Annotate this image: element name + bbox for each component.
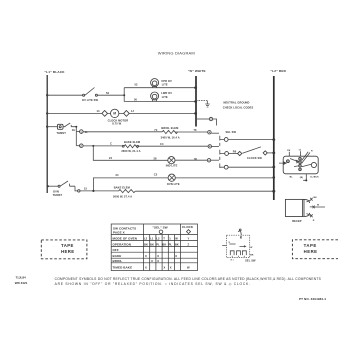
svg-text:L1: L1 (150, 237, 154, 241)
svg-text:BK: BK (314, 197, 318, 199)
svg-text:X: X (145, 265, 147, 269)
svg-text:OPERATION: OPERATION (113, 243, 132, 247)
svg-text:SEL SW: SEL SW (245, 259, 256, 263)
svg-text:2600 W, 21.4 A: 2600 W, 21.4 A (121, 149, 140, 153)
svg-text:(B): (B) (300, 177, 304, 179)
svg-text:C4: C4 (160, 142, 164, 146)
svg-text:X >: X > (231, 259, 235, 262)
svg-text:HERE: HERE (61, 249, 75, 254)
svg-text:30: 30 (194, 157, 198, 161)
svg-text:CLOCK SW: CLOCK SW (247, 156, 262, 160)
svg-text:BAKE ELEM: BAKE ELEM (124, 140, 140, 144)
svg-text:"N" WHITE: "N" WHITE (188, 69, 206, 73)
svg-text:NEUTRAL GROUND: NEUTRAL GROUND (224, 101, 250, 105)
svg-text:"L1" BLACK: "L1" BLACK (45, 70, 66, 74)
svg-text:M: M (113, 112, 116, 116)
svg-text:MODE OF OVEN: MODE OF OVEN (113, 237, 138, 241)
svg-text:LWR OV: LWR OV (161, 91, 172, 95)
svg-text:PT NO. 3294984-4: PT NO. 3294984-4 (299, 297, 326, 301)
svg-text:1H: 1H (72, 128, 76, 132)
svg-text:ARE SHOWN IN "OFF" OR "RELAXED: ARE SHOWN IN "OFF" OR "RELAXED" POSITION… (55, 282, 251, 286)
svg-text:L2: L2 (144, 237, 148, 241)
svg-text:IND LITE: IND LITE (166, 164, 178, 168)
svg-text:BK: BK (150, 243, 154, 247)
svg-text:LITE: LITE (162, 83, 168, 87)
svg-text:HERE: HERE (304, 249, 318, 254)
svg-text:74: 74 (154, 128, 158, 132)
svg-text:CHECK LOCAL CODES: CHECK LOCAL CODES (223, 105, 254, 109)
svg-text:THMST: THMST (57, 131, 67, 135)
svg-text:OFF: OFF (113, 248, 119, 252)
svg-text:X: X (151, 259, 153, 263)
svg-text:2600 W, 27.4 A: 2600 W, 27.4 A (113, 195, 132, 199)
svg-text:OVN: OVN (53, 189, 59, 193)
svg-text:COMPONENT SYMBOLS DO NOT REFLE: COMPONENT SYMBOLS DO NOT REFLECT TRUE CO… (55, 277, 322, 281)
svg-text:TAPE: TAPE (304, 243, 317, 248)
svg-text:BROIL: BROIL (113, 259, 123, 263)
svg-text:LITE: LITE (162, 95, 168, 99)
svg-text:53: 53 (106, 91, 110, 95)
svg-text:TAPE: TAPE (61, 243, 74, 248)
svg-text:THMST: THMST (53, 193, 63, 197)
svg-text:X: X (157, 259, 159, 263)
svg-text:1M: 1M (287, 150, 290, 152)
svg-text:BK: BK (144, 243, 148, 247)
svg-text:OVN LITE: OVN LITE (167, 182, 180, 186)
svg-text:76: 76 (194, 128, 198, 132)
svg-text:15: 15 (84, 186, 88, 190)
svg-text:BK: BK (175, 243, 179, 247)
svg-text:BK: BK (250, 254, 254, 256)
svg-text:24: 24 (116, 173, 120, 177)
svg-text:BL: BL (290, 176, 294, 178)
svg-text:50: 50 (134, 97, 138, 101)
svg-text:28: 28 (154, 156, 158, 160)
svg-text:X: X (157, 254, 159, 258)
svg-text:CLOCK: CLOCK (182, 225, 194, 229)
svg-text:3400 W, 16.4 A: 3400 W, 16.4 A (161, 135, 180, 139)
svg-text:71JL84: 71JL84 (16, 275, 27, 279)
svg-text:R6: R6 (233, 149, 237, 153)
svg-text:BROIL ELEM: BROIL ELEM (161, 126, 178, 130)
svg-text:TIMED BAKE: TIMED BAKE (113, 265, 133, 269)
svg-text:PAGE X: PAGE X (113, 231, 125, 235)
svg-text:SEL SW: SEL SW (226, 130, 237, 134)
svg-text:8.75 W: 8.75 W (112, 121, 121, 125)
svg-text:RECEP: RECEP (292, 219, 302, 223)
svg-text:BAKE ELEM: BAKE ELEM (114, 185, 130, 189)
svg-text:BK: BK (162, 243, 166, 247)
svg-text:X: X (145, 254, 147, 258)
svg-text:L2: L2 (156, 237, 160, 241)
svg-text:C2: C2 (154, 172, 158, 176)
svg-text:14: 14 (97, 109, 101, 113)
svg-text:WIRING DIAGRAM: WIRING DIAGRAM (158, 50, 195, 55)
svg-text:CL/BCK: CL/BCK (310, 177, 319, 179)
svg-text:UPR OV: UPR OV (161, 79, 172, 83)
svg-text:X: X (170, 265, 172, 269)
svg-text:"SEL" SW: "SEL" SW (153, 226, 168, 230)
svg-text:Y: Y (188, 237, 190, 241)
svg-text:24: 24 (109, 156, 113, 160)
svg-text:WD 3421: WD 3421 (15, 281, 28, 285)
svg-text:X: X (175, 254, 177, 258)
svg-text:BAKE: BAKE (113, 254, 122, 258)
svg-text:"L2" RED: "L2" RED (271, 69, 287, 73)
svg-text:52: 52 (135, 82, 139, 86)
svg-text:OV LITE SW: OV LITE SW (82, 98, 98, 102)
svg-text:C: C (110, 142, 112, 146)
svg-text:PL: PL (156, 243, 160, 247)
svg-text:X: X (164, 265, 166, 269)
svg-text:PL: PL (169, 243, 173, 247)
svg-text:1J: 1J (131, 109, 135, 113)
